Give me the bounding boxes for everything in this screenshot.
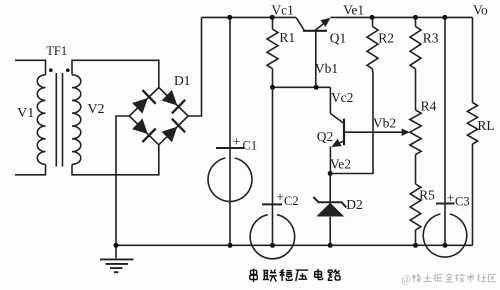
svg-text:C1: C1 <box>243 139 258 153</box>
svg-text:R3: R3 <box>423 31 439 46</box>
svg-text:Vc2: Vc2 <box>331 90 354 105</box>
svg-text:Q1: Q1 <box>330 31 347 46</box>
svg-text:+: + <box>276 190 284 205</box>
svg-text:Q2: Q2 <box>317 129 334 144</box>
svg-text:V2: V2 <box>87 102 104 117</box>
svg-text:RL: RL <box>477 118 494 133</box>
svg-text:D1: D1 <box>174 73 191 88</box>
svg-text:R1: R1 <box>279 30 295 45</box>
svg-text:V1: V1 <box>17 106 34 121</box>
svg-text:Vc1: Vc1 <box>271 2 294 17</box>
svg-text:Ve2: Ve2 <box>330 157 351 172</box>
svg-text:+: + <box>233 134 241 149</box>
svg-text:Vo: Vo <box>473 2 488 17</box>
svg-text:TF1: TF1 <box>46 44 67 58</box>
svg-text:Vb2: Vb2 <box>373 116 396 131</box>
svg-text:+: + <box>447 191 455 206</box>
svg-text:Vb1: Vb1 <box>315 61 338 76</box>
svg-text:@: @ <box>401 274 411 286</box>
svg-text:D2: D2 <box>346 197 363 212</box>
svg-text:Ve1: Ve1 <box>343 3 364 18</box>
svg-text:C3: C3 <box>455 195 470 209</box>
svg-text:R2: R2 <box>378 31 394 46</box>
svg-text:R4: R4 <box>421 99 437 114</box>
svg-text:R5: R5 <box>419 188 435 203</box>
svg-text:C2: C2 <box>284 194 299 208</box>
